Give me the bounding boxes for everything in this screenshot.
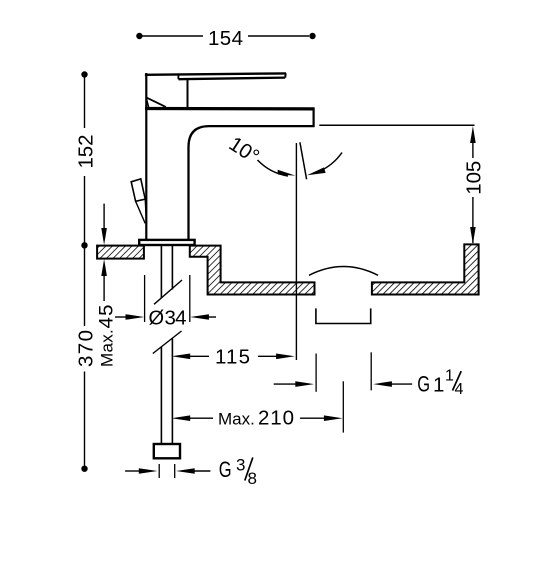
svg-text:152: 152: [75, 135, 98, 169]
pipe break 2: [153, 331, 182, 354]
svg-text:G: G: [219, 458, 232, 483]
dim Max.210: [172, 415, 191, 421]
svg-text:1: 1: [433, 374, 444, 397]
faucet body left edge: [145, 73, 147, 240]
dim Max.45 arrows: [103, 204, 105, 229]
svg-text:3: 3: [236, 455, 245, 474]
svg-text:154: 154: [208, 27, 243, 50]
side knob needle: [136, 201, 146, 223]
svg-text:115: 115: [215, 346, 250, 369]
dim 154 line: [143, 35, 204, 37]
spout right edge: [313, 108, 315, 128]
dim O34 ticks: [144, 275, 146, 322]
supply pipe left: [160, 245, 162, 298]
svg-text:370: 370: [75, 330, 98, 367]
dim O34 arrows: [115, 316, 128, 318]
base plate: [139, 240, 194, 245]
svg-text:1: 1: [445, 368, 454, 385]
dim 105 line + arrows: [470, 126, 476, 143]
svg-text:Max.: Max.: [218, 409, 255, 428]
body top / spout top: [145, 107, 315, 111]
10deg left arc: [258, 160, 289, 176]
handle blade right end: [284, 73, 287, 77]
handle notch diagonal: [146, 97, 166, 107]
dim 154 dots: [136, 33, 142, 39]
svg-text:8: 8: [248, 469, 257, 488]
svg-text:Max.45: Max.45: [97, 304, 120, 367]
drain dome arc: [309, 267, 378, 276]
dim Max.210 right tick: [342, 381, 344, 432]
svg-text:34: 34: [165, 307, 187, 330]
dim O34 text: [148, 306, 187, 327]
dim 115: [172, 354, 191, 360]
10deg right arc: [319, 153, 342, 172]
svg-text:210: 210: [258, 406, 294, 429]
hose end fitting: [154, 444, 180, 458]
handle blade top: [145, 73, 286, 74]
handle blade underside: [178, 78, 285, 80]
spout underside with curve into body right edge: [189, 126, 315, 240]
drain pipe bracket: [316, 308, 371, 323]
dim 152 line: [84, 75, 86, 129]
svg-text:Ø: Ø: [149, 308, 165, 330]
handle base right edge: [187, 79, 189, 107]
basin bottom right piece with right wall: [372, 244, 479, 294]
svg-text:G: G: [417, 372, 430, 397]
countertop mid slab with step down to basin bottom left: [190, 246, 315, 295]
countertop left slab: [97, 246, 144, 259]
stream tilted line 10deg: [300, 142, 307, 179]
svg-text:4: 4: [455, 381, 464, 398]
handle notch wedge: [146, 97, 148, 107]
supply pipe right: [171, 245, 173, 290]
stream vertical line: [295, 143, 297, 360]
dim 370 line: [84, 245, 86, 326]
dim G1 1/4 arrows: [274, 383, 296, 385]
side knob: [131, 179, 145, 201]
handle blade connector: [177, 75, 179, 79]
svg-text:105: 105: [463, 161, 486, 195]
dim 105 extension line: [319, 124, 474, 126]
pipe break 1: [154, 280, 182, 304]
dim G1 1/4 ticks: [315, 354, 317, 392]
dim G3/8: [125, 470, 141, 472]
